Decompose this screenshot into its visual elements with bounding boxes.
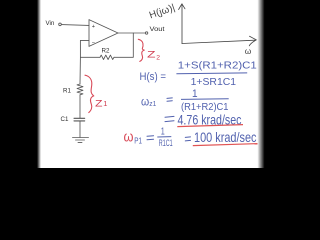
- svg-text:Vin: Vin: [46, 20, 55, 27]
- axis vertical: [181, 4, 183, 44]
- wire R2 to output node: [114, 33, 133, 57]
- svg-text:Z: Z: [95, 98, 103, 108]
- svg-text:1: 1: [161, 126, 165, 137]
- wire op-amp output: [118, 32, 145, 34]
- node Vin terminal: [59, 23, 62, 26]
- svg-text:R1C1: R1C1: [159, 138, 173, 148]
- svg-text:2: 2: [156, 54, 160, 61]
- svg-text:ω: ω: [124, 129, 134, 145]
- svg-text:P1: P1: [134, 136, 142, 145]
- wire node to R1: [79, 57, 81, 84]
- fraction bar w_p1: [157, 136, 171, 138]
- axis horizontal: [182, 40, 255, 43]
- brace Z2: [138, 39, 144, 61]
- svg-text:1+SR1C1: 1+SR1C1: [191, 76, 237, 88]
- wire C1 to ground: [79, 121, 81, 137]
- svg-text:ω: ω: [141, 94, 149, 108]
- svg-text:z1: z1: [149, 99, 156, 108]
- svg-text:+: +: [92, 24, 95, 30]
- resistor R1: [77, 84, 83, 95]
- svg-text:R2: R2: [102, 47, 110, 54]
- underline 100 krad/sec: [193, 144, 258, 146]
- whiteboard background: [0, 0, 300, 168]
- wire inverting input: [80, 40, 89, 57]
- svg-text:−: −: [92, 41, 95, 47]
- fraction bar w_z1: [181, 98, 229, 101]
- wire to R2: [80, 56, 100, 58]
- svg-text:C1: C1: [61, 116, 69, 123]
- fraction bar H(s): [176, 72, 247, 75]
- svg-text:1: 1: [192, 88, 198, 100]
- node Vout terminal: [145, 32, 147, 34]
- wire R1 to C1: [79, 95, 81, 118]
- svg-text:ω: ω: [245, 46, 252, 56]
- svg-text:Vout: Vout: [150, 26, 165, 33]
- svg-text:H(s) =: H(s) =: [140, 71, 167, 83]
- svg-text:1: 1: [103, 99, 107, 108]
- op-amp U1: [89, 20, 118, 47]
- brace Z1: [85, 75, 94, 112]
- underline 4.76 krad/sec: [177, 125, 243, 127]
- wire Vin to op-amp + input: [61, 24, 89, 27]
- equation w_z1: [141, 88, 242, 128]
- equation w_p1: [124, 126, 257, 148]
- resistor R2: [100, 55, 114, 59]
- svg-text:R1: R1: [63, 88, 71, 95]
- capacitor C1: [74, 118, 85, 121]
- svg-text:Z: Z: [147, 50, 156, 60]
- equation H(s): [140, 60, 257, 88]
- svg-text:100 krad/sec: 100 krad/sec: [194, 129, 257, 145]
- svg-text:1+S(R1+R2)C1: 1+S(R1+R2)C1: [178, 60, 257, 72]
- ground: [73, 138, 89, 143]
- svg-text:(R1+R2)C1: (R1+R2)C1: [181, 101, 229, 113]
